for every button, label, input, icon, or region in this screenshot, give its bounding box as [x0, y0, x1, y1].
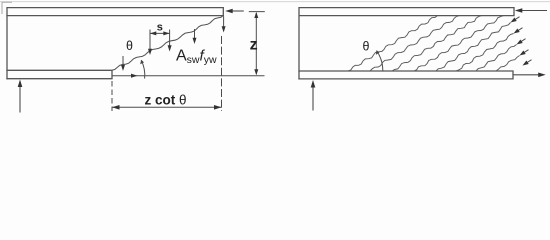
svg-text:s: s	[157, 22, 163, 34]
stirrup arrow 4	[194, 29, 196, 41]
svg-text:z: z	[250, 37, 258, 54]
svg-text:θ: θ	[363, 40, 370, 54]
compression chord load arrow, right beam	[519, 10, 548, 12]
left beam top flange inner line	[7, 15, 223, 17]
smeared strut line 4	[414, 16, 504, 72]
right beam bottom flange	[299, 71, 513, 79]
arc arrowhead, right	[376, 50, 380, 55]
support reaction arrow, left beam	[19, 83, 21, 113]
smeared strut line 8 (cut)	[496, 56, 520, 72]
z cot dimension, right extension line	[221, 36, 223, 111]
strut force arrow 3 at cut	[519, 39, 526, 43]
strut force arrow 2 at cut	[516, 28, 523, 32]
z dimension top tick	[249, 11, 265, 13]
svg-text:z cot θ: z cot θ	[144, 93, 186, 108]
smeared strut line 3	[392, 16, 482, 72]
support reaction arrow, right beam	[312, 84, 314, 111]
chord force arrowhead on axis	[131, 74, 138, 78]
shear load arrow, left beam	[229, 10, 244, 12]
smeared strut line 6 (cut)	[456, 34, 514, 72]
stirrup arrow 1	[122, 56, 124, 68]
strut force arrow 4 at cut	[522, 50, 529, 54]
left beam bottom chord band	[7, 70, 112, 78]
stirrup arrow 3 / s right tick	[169, 30, 171, 49]
z cot dimension line	[112, 106, 222, 108]
s spacing dimension	[150, 32, 170, 34]
left beam top chord outline	[7, 8, 223, 79]
z cot dimension, left extension line (dashed)	[111, 81, 113, 111]
arc arrowhead top	[140, 60, 144, 64]
tension chord force arrow, right beam	[513, 74, 542, 76]
right beam top flange	[299, 8, 514, 79]
angle arc theta, left	[141, 60, 145, 78]
stirrup arrow 2 / s left tick	[149, 30, 151, 52]
angle arc theta, right	[377, 51, 383, 72]
bottom chord axis line (z reference)	[112, 75, 265, 77]
smeared strut line 1	[348, 16, 438, 72]
strut force arrow 5 at cut	[525, 60, 532, 64]
smeared strut line 2	[370, 16, 460, 72]
stirrup arrow 5 at section	[223, 17, 225, 30]
smeared strut line 5 (cut)	[436, 23, 511, 72]
strut force arrow 1 at cut	[513, 17, 520, 21]
svg-text:Aswfyw: Aswfyw	[176, 47, 217, 66]
smeared strut line 7 (cut)	[476, 45, 517, 72]
diagonal crack line, left beam	[112, 16, 224, 71]
z dimension line	[255, 13, 257, 73]
scan crop border (faint top line)	[0, 1, 550, 3]
svg-text:θ: θ	[126, 39, 133, 53]
scan crop corner tick	[2, 2, 12, 14]
